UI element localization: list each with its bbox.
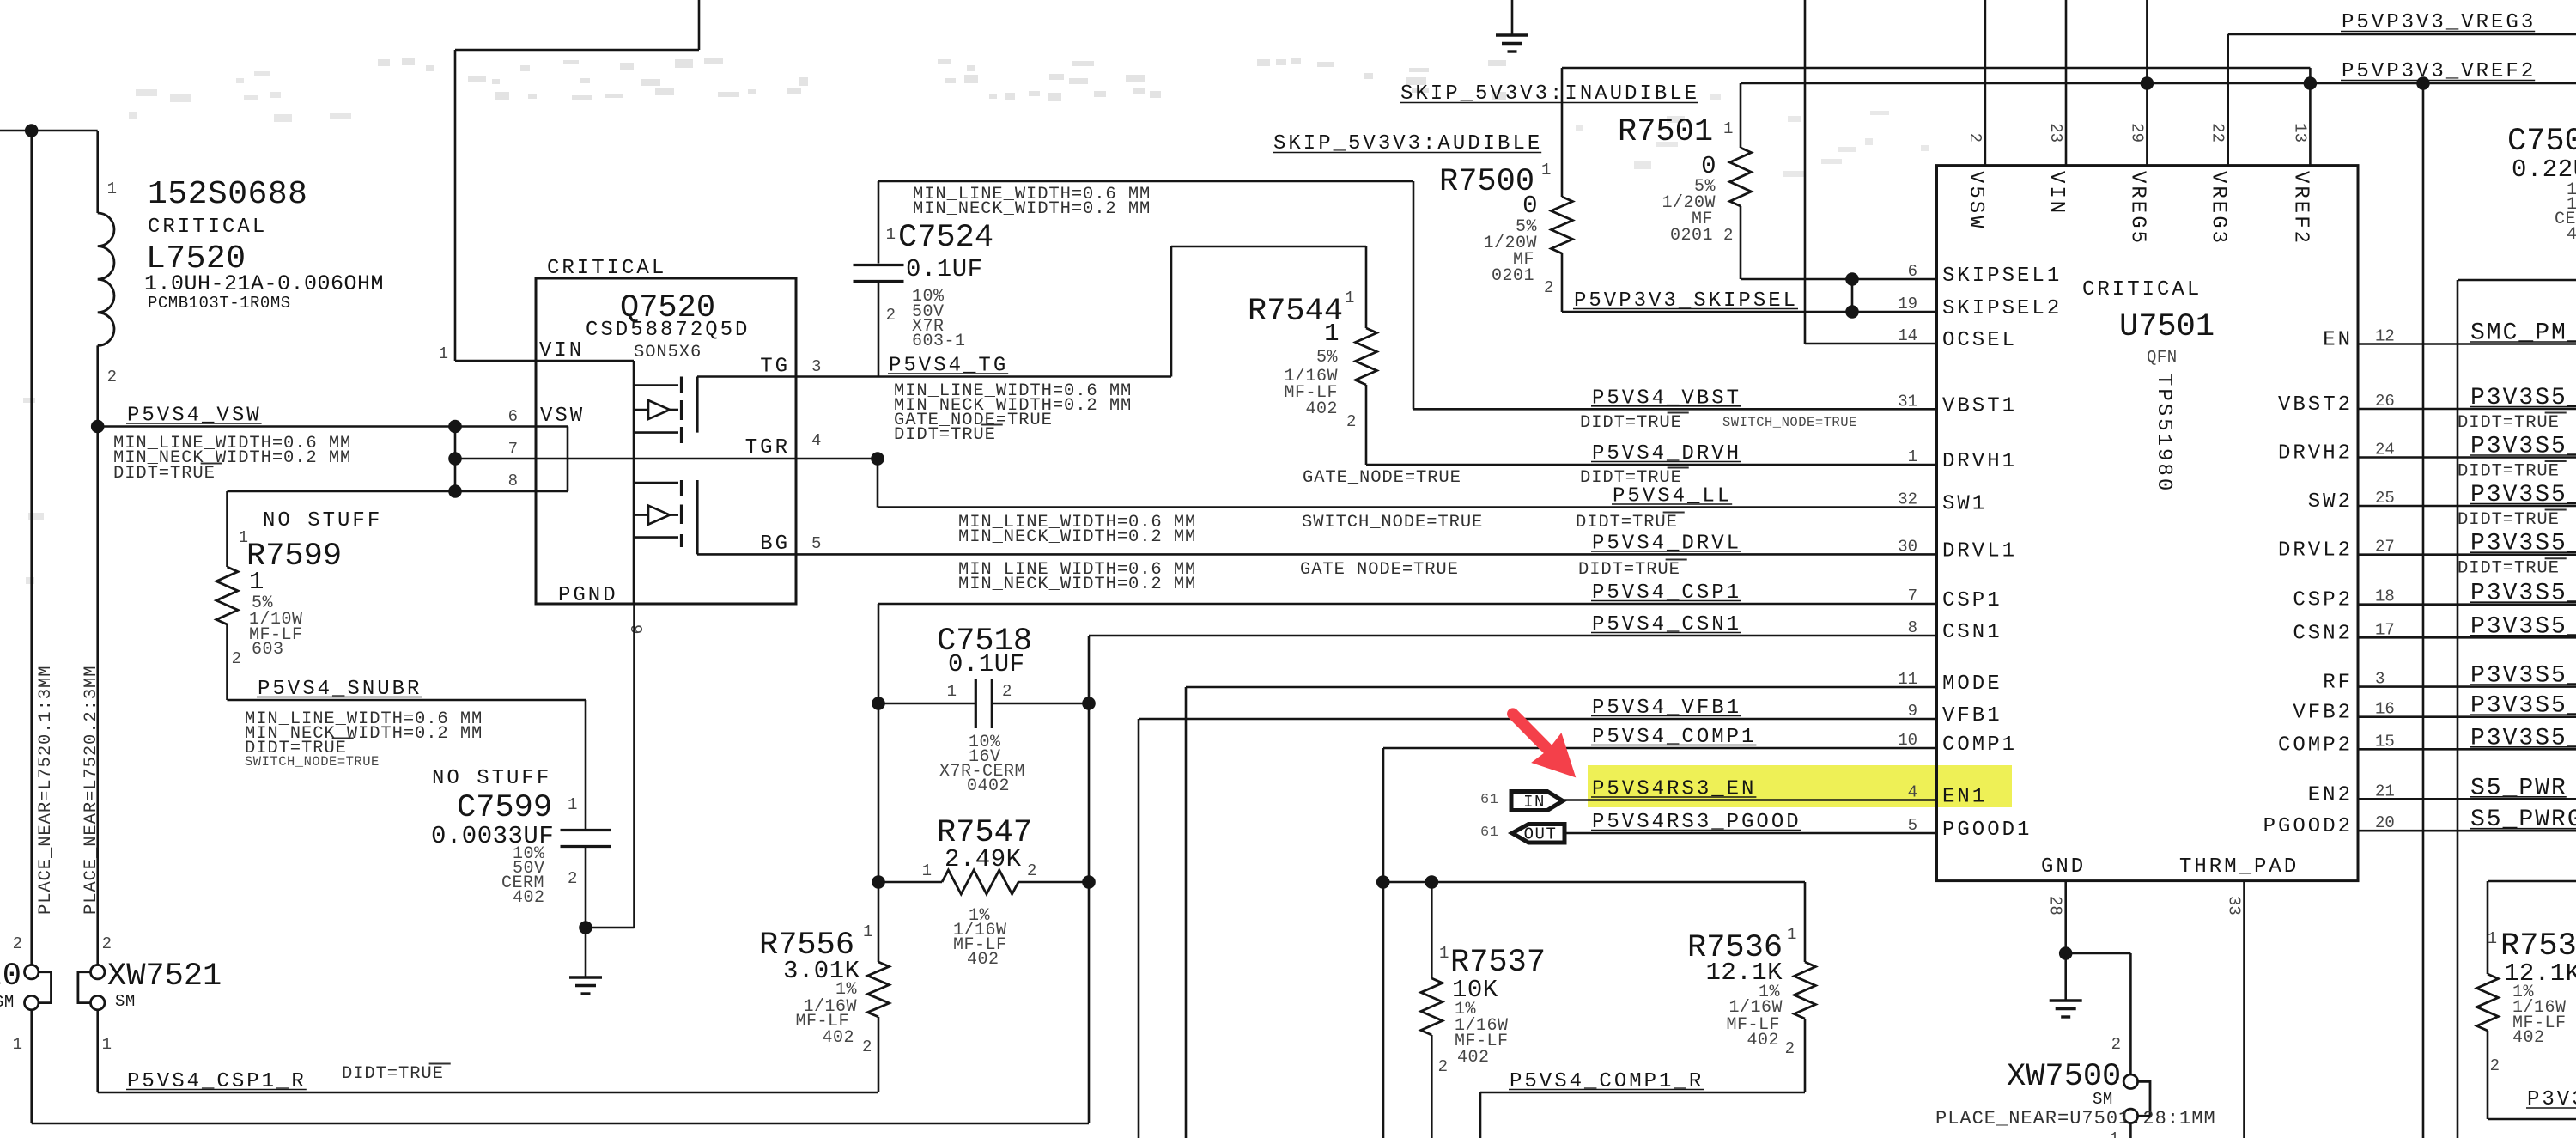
svg-text:2: 2 [107, 368, 117, 386]
svg-text:DIDT=TRUE: DIDT=TRUE [1576, 513, 1678, 532]
svg-text:IN: IN [1523, 793, 1546, 812]
svg-text:1: 1 [922, 861, 932, 880]
svg-text:1: 1 [947, 682, 957, 701]
svg-text:15: 15 [2375, 732, 2395, 751]
svg-text:13: 13 [2290, 123, 2309, 143]
svg-text:CSD58872Q5D: CSD58872Q5D [586, 319, 750, 342]
svg-text:P3V3S5_: P3V3S5_ [2470, 663, 2576, 690]
svg-text:VREG5: VREG5 [2125, 171, 2148, 246]
svg-text:2: 2 [1723, 226, 1733, 245]
svg-text:4: 4 [2567, 225, 2576, 245]
svg-text:PGOOD2: PGOOD2 [2263, 815, 2353, 838]
svg-text:2: 2 [886, 306, 896, 325]
svg-text:1: 1 [107, 180, 117, 198]
svg-text:VREF2: VREF2 [2288, 171, 2312, 246]
svg-text:30: 30 [1898, 537, 1917, 556]
svg-text:DRVH2: DRVH2 [2278, 442, 2353, 466]
svg-text:DIDT=TRUE: DIDT=TRUE [342, 1064, 444, 1084]
svg-text:16: 16 [2375, 700, 2395, 719]
svg-text:VIN: VIN [2044, 171, 2068, 216]
svg-text:10: 10 [1898, 731, 1917, 750]
svg-text:25: 25 [2375, 489, 2395, 508]
svg-text:2: 2 [232, 649, 241, 668]
svg-text:21: 21 [2375, 782, 2395, 800]
svg-text:EN2: EN2 [2308, 783, 2353, 806]
svg-text:9: 9 [626, 624, 645, 634]
svg-text:27: 27 [2375, 538, 2395, 557]
svg-text:DIDT=TRUE: DIDT=TRUE [1580, 413, 1682, 433]
svg-text:0: 0 [1522, 192, 1538, 220]
svg-text:PLACE_NEAR=L7520.1:3MM: PLACE_NEAR=L7520.1:3MM [36, 666, 56, 915]
svg-text:DIDT=TRUE: DIDT=TRUE [2458, 462, 2560, 482]
svg-text:2: 2 [2111, 1035, 2121, 1054]
svg-text:SWITCH_NODE=TRUE: SWITCH_NODE=TRUE [1722, 415, 1857, 430]
svg-text:3: 3 [2375, 670, 2385, 689]
svg-text:SKIPSEL2: SKIPSEL2 [1942, 297, 2062, 320]
svg-text:32: 32 [1898, 490, 1917, 509]
svg-text:7: 7 [1908, 587, 1917, 606]
svg-text:2: 2 [102, 934, 112, 953]
svg-text:PLACE_NEAR=L7520.2:3MM: PLACE_NEAR=L7520.2:3MM [82, 666, 101, 915]
svg-text:GND: GND [2041, 855, 2086, 879]
svg-text:SON5X6: SON5X6 [634, 343, 702, 362]
svg-text:P3V3S5_: P3V3S5_ [2470, 581, 2576, 607]
svg-text:PCMB103T-1R0MS: PCMB103T-1R0MS [148, 294, 291, 313]
svg-text:SMC_PM_: SMC_PM_ [2470, 320, 2576, 347]
svg-text:MIN_NECK_WIDTH=0.2 MM: MIN_NECK_WIDTH=0.2 MM [913, 199, 1151, 219]
svg-text:TGR: TGR [745, 436, 790, 459]
svg-text:DIDT=TRUE: DIDT=TRUE [113, 464, 216, 484]
svg-text:P3V3S5_: P3V3S5_ [2470, 385, 2576, 411]
svg-text:P3V3S5_: P3V3S5_ [2470, 531, 2576, 557]
svg-text:23: 23 [2046, 123, 2065, 143]
svg-text:4: 4 [811, 431, 821, 450]
svg-text:19: 19 [1898, 295, 1917, 313]
svg-text:61: 61 [1480, 792, 1498, 808]
svg-text:V5SW: V5SW [1964, 171, 1987, 231]
svg-text:GATE_NODE=TRUE: GATE_NODE=TRUE [1300, 560, 1459, 580]
svg-text:1: 1 [13, 1035, 22, 1054]
svg-text:VBST1: VBST1 [1942, 394, 2017, 417]
svg-text:EN1: EN1 [1942, 786, 1987, 809]
svg-text:QFN: QFN [2147, 348, 2178, 367]
svg-text:DRVL1: DRVL1 [1942, 539, 2017, 563]
svg-text:1: 1 [2110, 1129, 2119, 1138]
svg-text:THRM_PAD: THRM_PAD [2179, 855, 2299, 879]
svg-text:1: 1 [249, 568, 264, 596]
svg-text:28: 28 [2046, 896, 2065, 916]
svg-text:TPS51980: TPS51980 [2152, 374, 2175, 493]
svg-text:20: 20 [2375, 813, 2395, 832]
svg-text:RF: RF [2323, 672, 2353, 695]
svg-text:S5_PWR: S5_PWR [2470, 775, 2567, 801]
svg-text:VREG3: VREG3 [2207, 171, 2230, 246]
svg-text:EN: EN [2323, 329, 2353, 352]
svg-text:2: 2 [862, 1038, 872, 1056]
svg-text:26: 26 [2375, 392, 2395, 411]
svg-text:0201: 0201 [1670, 226, 1713, 246]
svg-text:402: 402 [2512, 1028, 2545, 1048]
svg-text:SW2: SW2 [2308, 490, 2353, 514]
svg-text:U7501: U7501 [2119, 309, 2215, 345]
svg-text:MIN_NECK_WIDTH=0.2 MM: MIN_NECK_WIDTH=0.2 MM [958, 527, 1196, 547]
svg-text:17: 17 [2375, 620, 2395, 639]
svg-text:VSW: VSW [540, 405, 585, 428]
svg-text:MODE: MODE [1942, 672, 2002, 696]
svg-text:2: 2 [2490, 1056, 2500, 1075]
svg-text:P3V3S5_: P3V3S5_ [2470, 725, 2576, 752]
svg-text:SWITCH_NODE=TRUE: SWITCH_NODE=TRUE [1302, 513, 1483, 532]
svg-text:VFB2: VFB2 [2293, 702, 2353, 725]
svg-text:8: 8 [508, 472, 518, 490]
svg-text:24: 24 [2375, 441, 2395, 459]
svg-text:C7524: C7524 [898, 220, 993, 256]
svg-text:DIDT=TRUE: DIDT=TRUE [1578, 560, 1680, 580]
svg-text:PLACE_NEAR=U7501.28:1MM: PLACE_NEAR=U7501.28:1MM [1935, 1108, 2216, 1129]
svg-text:33: 33 [2225, 896, 2244, 916]
svg-text:402: 402 [822, 1028, 854, 1048]
svg-text:402: 402 [513, 888, 545, 908]
svg-text:5: 5 [811, 534, 821, 553]
svg-text:402: 402 [1457, 1048, 1490, 1068]
svg-text:4: 4 [1908, 783, 1917, 802]
svg-text:2: 2 [1438, 1057, 1448, 1076]
svg-text:BG: BG [760, 532, 790, 556]
svg-text:PGOOD1: PGOOD1 [1942, 819, 2032, 842]
svg-text:VBST2: VBST2 [2278, 393, 2353, 417]
svg-text:1: 1 [1541, 161, 1551, 180]
svg-text:1: 1 [886, 225, 896, 244]
svg-text:1: 1 [439, 344, 448, 363]
svg-text:SM: SM [0, 993, 15, 1012]
svg-text:PGND: PGND [558, 584, 618, 607]
svg-text:XW7521: XW7521 [107, 958, 222, 995]
svg-text:402: 402 [1747, 1031, 1779, 1050]
svg-text:NO STUFF: NO STUFF [263, 509, 382, 532]
svg-text:2: 2 [1027, 861, 1036, 880]
svg-text:CSP1: CSP1 [1942, 589, 2002, 612]
svg-text:603: 603 [252, 640, 284, 660]
svg-text:SM: SM [115, 992, 136, 1011]
svg-text:VIN: VIN [539, 339, 584, 362]
svg-text:CSN1: CSN1 [1942, 621, 2002, 644]
svg-text:61: 61 [1480, 825, 1498, 841]
svg-text:P3V3S5_: P3V3S5_ [2470, 693, 2576, 720]
svg-text:XW7520: XW7520 [0, 958, 21, 995]
svg-text:152S0688: 152S0688 [148, 176, 307, 213]
svg-text:SWITCH_NODE=TRUE: SWITCH_NODE=TRUE [245, 754, 380, 770]
svg-text:SW1: SW1 [1942, 493, 1987, 516]
svg-text:1: 1 [1723, 119, 1733, 138]
svg-text:CRITICAL: CRITICAL [148, 216, 267, 239]
svg-text:2: 2 [1785, 1039, 1795, 1058]
svg-text:DIDT=TRUE: DIDT=TRUE [894, 425, 996, 445]
svg-text:MIN_NECK_WIDTH=0.2 MM: MIN_NECK_WIDTH=0.2 MM [958, 575, 1196, 594]
svg-text:1: 1 [1324, 319, 1340, 348]
svg-text:1: 1 [1787, 925, 1796, 944]
svg-text:SKIPSEL1: SKIPSEL1 [1942, 265, 2062, 288]
svg-text:CRITICAL: CRITICAL [2082, 278, 2202, 301]
svg-text:TG: TG [760, 356, 790, 379]
svg-text:11: 11 [1898, 670, 1917, 689]
svg-text:P3V3S5_: P3V3S5_ [2470, 482, 2576, 508]
svg-text:2: 2 [1346, 412, 1356, 431]
svg-text:R7501: R7501 [1618, 114, 1713, 150]
svg-text:NO STUFF: NO STUFF [432, 767, 551, 790]
svg-text:CRITICAL: CRITICAL [547, 257, 666, 280]
svg-text:1: 1 [1908, 447, 1917, 466]
svg-text:5%: 5% [1316, 348, 1339, 368]
svg-text:6: 6 [508, 407, 518, 426]
svg-text:12: 12 [2375, 327, 2395, 346]
svg-text:OCSEL: OCSEL [1942, 329, 2017, 352]
svg-text:SM: SM [2093, 1090, 2113, 1109]
svg-text:14: 14 [1898, 326, 1917, 345]
svg-text:VFB1: VFB1 [1942, 704, 2002, 727]
svg-text:8: 8 [1908, 618, 1917, 637]
svg-text:0201: 0201 [1492, 266, 1534, 286]
svg-text:2: 2 [1544, 278, 1553, 297]
svg-text:S5_PWRG: S5_PWRG [2470, 806, 2576, 833]
svg-text:DRVL2: DRVL2 [2278, 539, 2353, 563]
svg-text:P3V3S5_: P3V3S5_ [2470, 613, 2576, 640]
svg-text:22: 22 [2208, 123, 2227, 143]
svg-text:COMP1: COMP1 [1942, 733, 2017, 757]
svg-text:DIDT=TRUE: DIDT=TRUE [2458, 559, 2560, 579]
svg-text:0402: 0402 [967, 776, 1010, 796]
svg-text:2: 2 [568, 869, 577, 888]
svg-text:COMP2: COMP2 [2278, 733, 2353, 757]
svg-text:1: 1 [1345, 289, 1354, 307]
svg-text:0.1UF: 0.1UF [948, 650, 1025, 679]
svg-text:2.49K: 2.49K [945, 845, 1022, 873]
svg-text:18: 18 [2375, 587, 2395, 606]
svg-text:CSN2: CSN2 [2293, 622, 2353, 645]
svg-text:OUT: OUT [1524, 825, 1558, 844]
svg-text:1: 1 [863, 922, 872, 941]
svg-text:5: 5 [1908, 816, 1917, 835]
svg-text:DIDT=TRUE: DIDT=TRUE [2458, 510, 2560, 530]
svg-text:7: 7 [508, 440, 518, 459]
svg-text:402: 402 [1305, 399, 1338, 419]
svg-text:1: 1 [2488, 929, 2497, 948]
svg-text:2: 2 [1002, 682, 1012, 701]
svg-text:1.0UH-21A-0.006OHM: 1.0UH-21A-0.006OHM [144, 271, 384, 296]
svg-text:R7500: R7500 [1439, 164, 1534, 200]
svg-text:3: 3 [811, 357, 821, 376]
svg-text:DRVH1: DRVH1 [1942, 450, 2017, 473]
svg-text:P3V3S5_: P3V3S5_ [2470, 434, 2576, 460]
svg-text:0.1UF: 0.1UF [906, 255, 983, 283]
svg-text:6: 6 [1908, 262, 1917, 281]
svg-text:1: 1 [1439, 944, 1449, 963]
svg-text:2: 2 [13, 934, 22, 953]
svg-text:1: 1 [102, 1035, 112, 1054]
svg-text:GATE_NODE=TRUE: GATE_NODE=TRUE [1303, 468, 1461, 488]
svg-text:31: 31 [1898, 392, 1917, 411]
svg-text:402: 402 [967, 950, 999, 970]
svg-text:29: 29 [2127, 123, 2146, 143]
svg-text:C7599: C7599 [457, 790, 552, 826]
svg-text:2: 2 [1965, 133, 1984, 143]
svg-text:DIDT=TRUE: DIDT=TRUE [2458, 413, 2560, 433]
svg-text:C750: C750 [2507, 124, 2576, 160]
svg-text:CSP2: CSP2 [2293, 589, 2353, 612]
svg-text:9: 9 [1908, 702, 1917, 721]
svg-text:1: 1 [568, 795, 577, 814]
svg-text:603-1: 603-1 [912, 332, 966, 351]
